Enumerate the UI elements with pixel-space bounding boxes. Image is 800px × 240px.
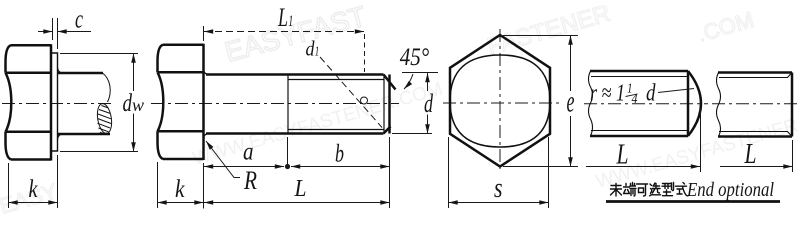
caption underline <box>606 200 780 203</box>
break curve + hatched ellipse (view1) <box>95 73 113 135</box>
svg-text:1: 1 <box>315 45 320 60</box>
L dim (view4) <box>586 108 701 172</box>
svg-text:R: R <box>243 166 257 195</box>
svg-text:WWW.EASYFASTENER.COM: WWW.EASYFASTENER.COM <box>191 78 445 169</box>
washer face strip (view1) <box>52 53 58 151</box>
svg-text:L: L <box>294 176 307 202</box>
svg-text:End optional: End optional <box>686 179 774 201</box>
e dimension <box>503 36 578 167</box>
svg-text:w: w <box>132 95 144 115</box>
svg-text:L: L <box>277 3 288 32</box>
centerline (view4) <box>584 103 708 105</box>
under-head fillet <box>204 70 210 138</box>
L dim (view5) <box>720 140 793 172</box>
bottom caption: 末端可选型式 End optional <box>611 183 689 197</box>
shank outline with round end (view4) <box>590 71 701 136</box>
shank (view1, broken) <box>58 68 111 140</box>
r label + leader <box>658 89 694 93</box>
d dimension (view2) <box>392 73 432 134</box>
型 <box>662 183 674 196</box>
thread start line + minor dia lines <box>288 75 384 134</box>
dw dimension <box>60 54 138 152</box>
svg-text:L: L <box>616 140 629 171</box>
svg-text:r ≈ 1: r ≈ 1 <box>590 81 625 107</box>
svg-text:d: d <box>424 89 434 118</box>
centerlines <box>443 29 563 172</box>
svg-text:FASTENER: FASTENER <box>484 0 613 61</box>
svg-text:EASYFAST: EASYFAST <box>222 0 370 67</box>
R leader <box>206 141 240 178</box>
centerline view1+view2 <box>2 103 399 105</box>
hexagon <box>450 35 550 167</box>
svg-text:d: d <box>306 37 315 61</box>
svg-text:45°: 45° <box>400 44 430 71</box>
svg-text:s: s <box>494 173 503 204</box>
thread minor lines + wavy break line (view5) <box>717 73 793 137</box>
可 <box>637 184 648 196</box>
svg-text:d: d <box>123 90 133 117</box>
svg-text:k: k <box>175 176 185 203</box>
d1 leader (dashed) + circle <box>320 57 382 128</box>
svg-text:b: b <box>335 141 344 168</box>
svg-text:e: e <box>567 84 575 119</box>
svg-text:c: c <box>75 5 83 34</box>
thread minor lines + wavy break line (view4) <box>589 71 689 136</box>
svg-text:L: L <box>744 139 757 170</box>
hex head side view (view2) <box>158 44 204 160</box>
a / b dimension <box>204 137 390 209</box>
svg-text:a: a <box>243 139 254 166</box>
45 deg callout <box>402 73 438 90</box>
centerline (view5) <box>712 103 798 105</box>
选 <box>650 183 661 196</box>
chamfer circle <box>450 55 550 147</box>
k dimension (view2) <box>158 162 204 208</box>
svg-text:.COM: .COM <box>694 7 756 47</box>
c dimension <box>38 18 91 49</box>
shank (view2) <box>206 75 396 134</box>
端 <box>624 183 637 197</box>
式 <box>676 183 689 196</box>
hex head side view (view1) <box>6 44 52 160</box>
svg-text:k: k <box>29 176 39 203</box>
L dimension (view2) <box>204 202 390 204</box>
s dimension <box>449 137 549 208</box>
shank outline with flat end (view5) <box>718 73 792 137</box>
k dimension (view1) <box>9 155 58 208</box>
svg-text:d: d <box>646 81 656 107</box>
svg-text:1: 1 <box>288 13 293 30</box>
L1 dimension (dashed) <box>204 26 365 72</box>
末 <box>611 184 622 197</box>
